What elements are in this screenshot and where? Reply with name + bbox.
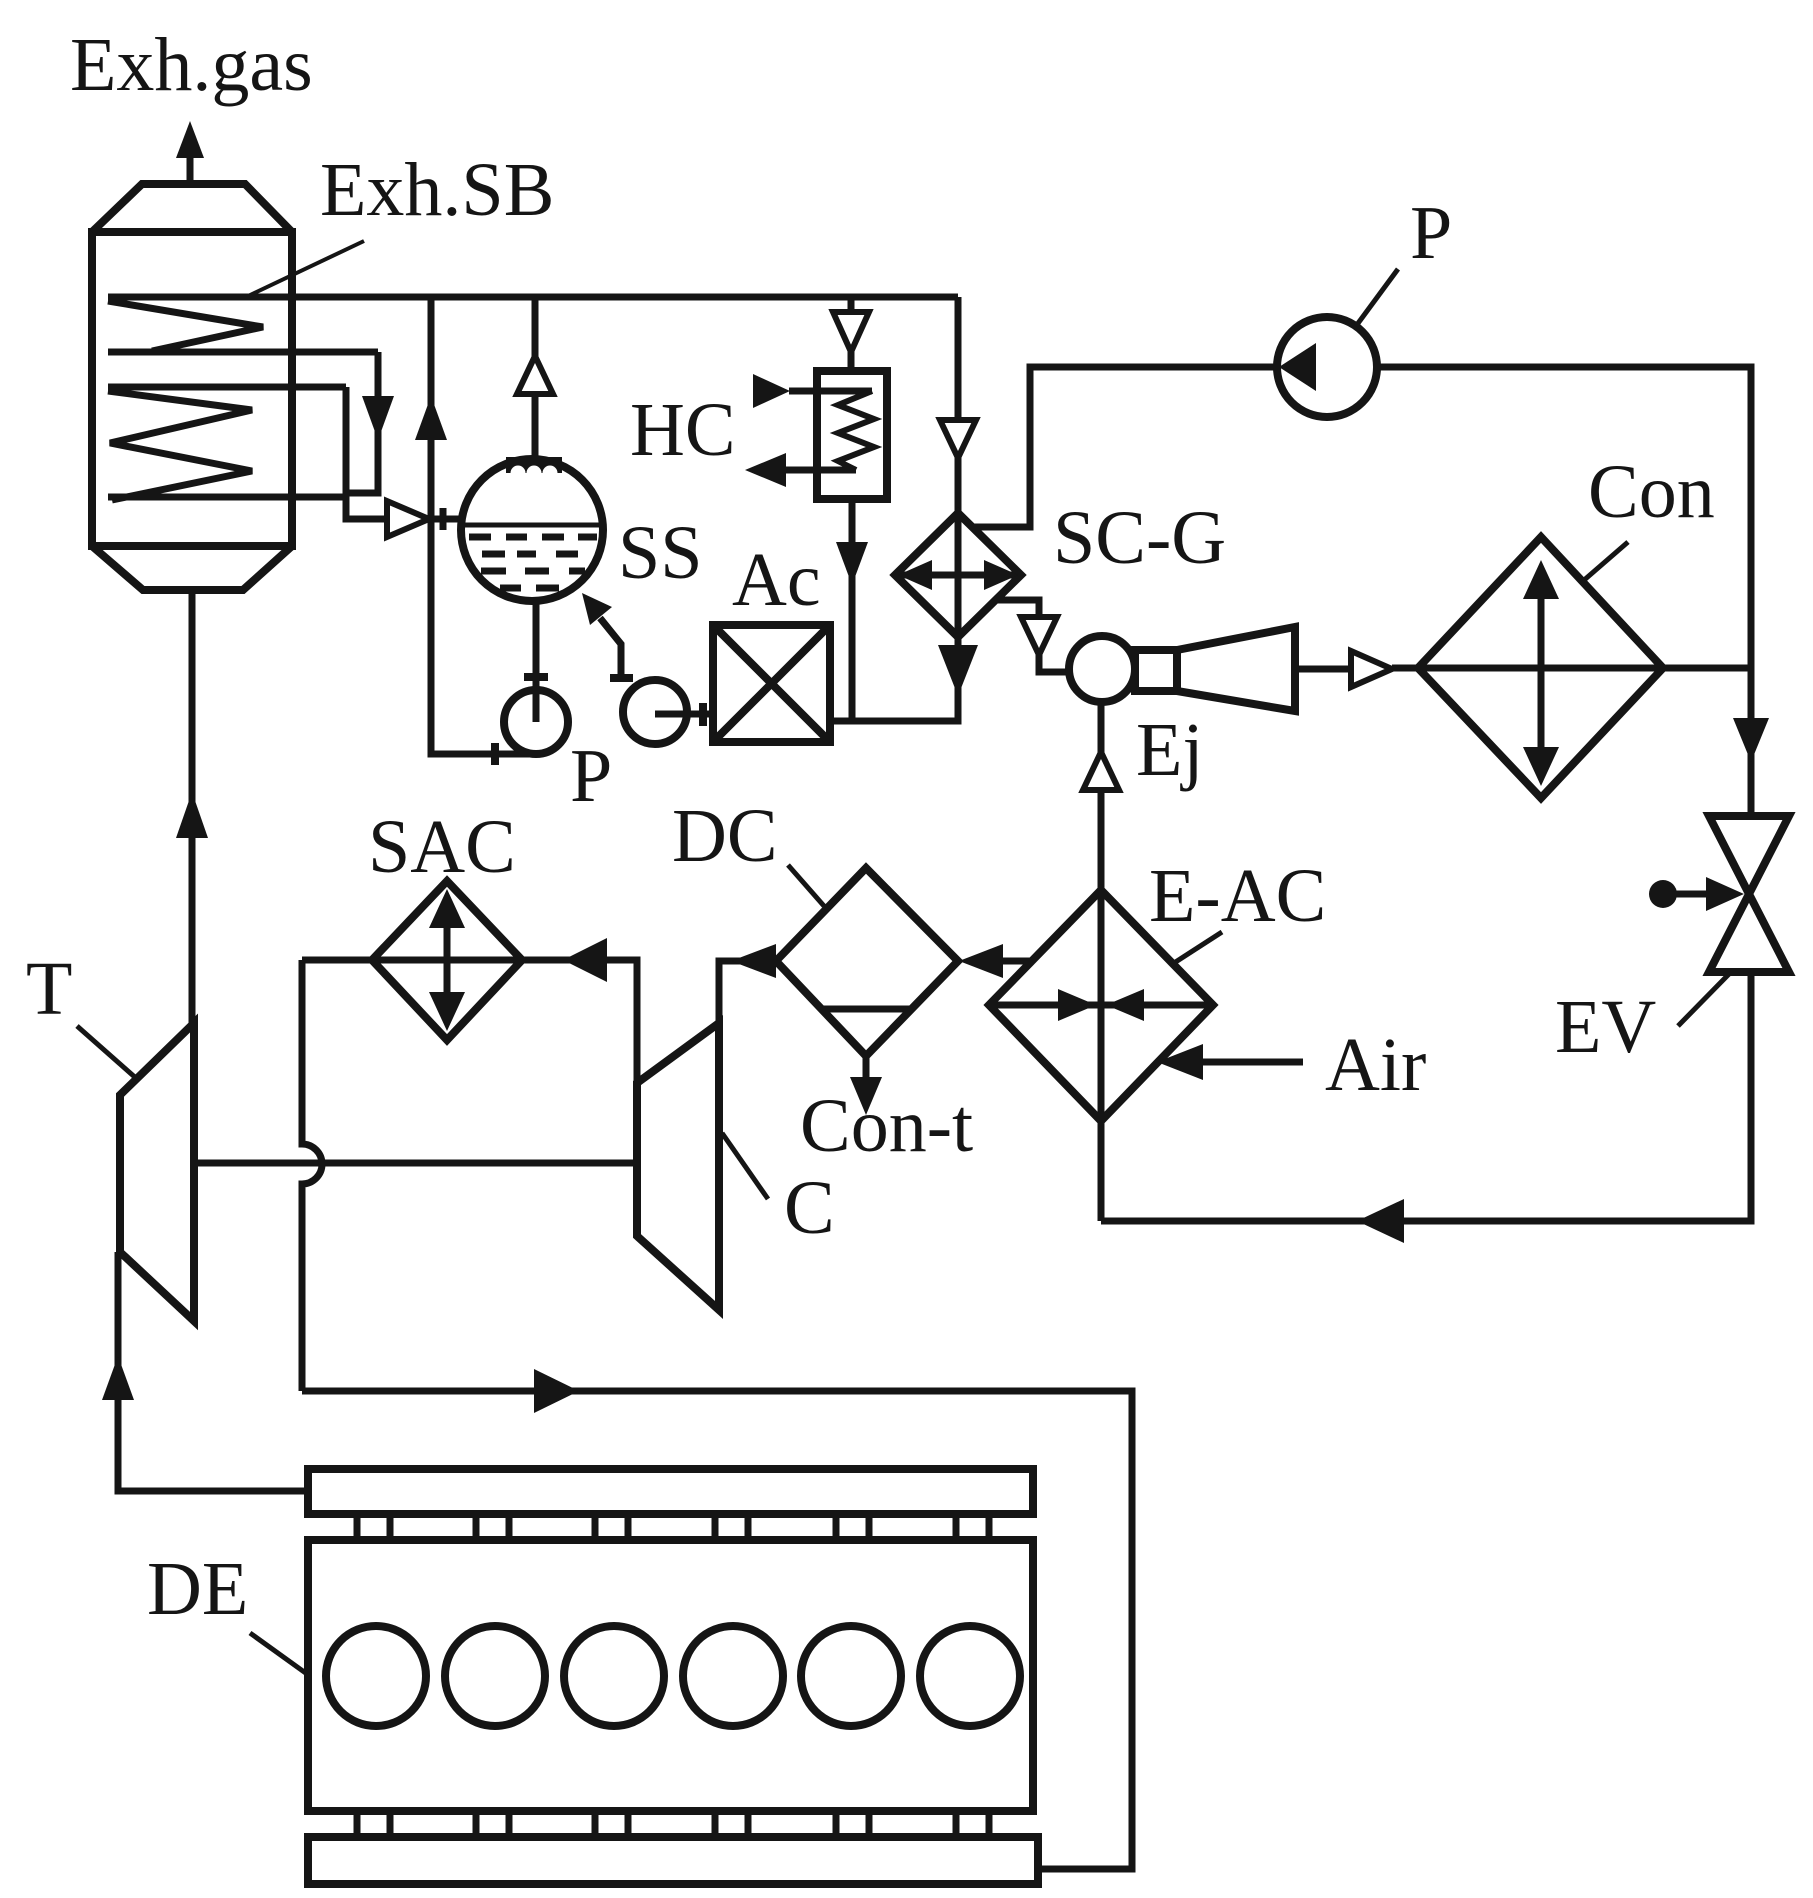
wire SS inlet stub [431, 516, 462, 523]
wire DC to compressor [719, 961, 776, 1023]
wire main steam line to SC-G [108, 294, 958, 301]
leader Exh.SB [246, 241, 364, 297]
wire turbine to boiler [189, 590, 196, 1023]
cylinder 3 [564, 1626, 664, 1726]
water dashes in SS [469, 537, 597, 588]
wire coil connector to SS x=346 [346, 387, 387, 519]
leader P top [1356, 269, 1398, 326]
shaft T to C [194, 1160, 637, 1167]
arrow open down into HC [833, 312, 869, 352]
wire SC-G lower tap to Ej [996, 600, 1069, 672]
arrow up to boiler [176, 792, 208, 838]
drain-cooler DC diamond [776, 868, 958, 1056]
engine DE bottom rail [308, 1837, 1038, 1884]
svg-text:Ac: Ac [732, 538, 821, 622]
wire pump P2 suction riser [600, 618, 621, 682]
wire feedwater riser x=431 [431, 297, 538, 754]
svg-text:SC-G: SC-G [1053, 496, 1226, 580]
wire steam line corner down to SC-G [955, 297, 962, 513]
wire E-AC to DC [1003, 958, 1031, 965]
svg-text:SAC: SAC [368, 805, 516, 889]
wire through Con [1418, 665, 1751, 672]
leader T [77, 1026, 137, 1079]
ejector diffuser cone [1177, 627, 1295, 711]
leader C [722, 1133, 768, 1199]
wire SC-G bottom to Ac [830, 637, 958, 721]
svg-text:HC: HC [630, 388, 736, 472]
svg-text:C: C [784, 1166, 835, 1250]
arrow Air into E-AC [1157, 1044, 1203, 1080]
arrow up to turbine [102, 1356, 134, 1400]
condenser Con diamond [1418, 537, 1663, 798]
svg-text:DE: DE [147, 1547, 248, 1631]
cylinder 6 [920, 1626, 1020, 1726]
arrow left into DC [959, 944, 1003, 978]
leader DE [250, 1633, 307, 1674]
resistor heating element in HC [838, 391, 874, 470]
evaporator E-AC diamond [989, 890, 1213, 1121]
pump P top circle [1277, 317, 1377, 417]
arrow left into SAC [563, 938, 607, 982]
wire to Con left vertex [1392, 665, 1418, 672]
wire DC condensate drain [863, 1056, 870, 1082]
demister crown in SS [506, 457, 562, 481]
arrow open right to Con [1351, 651, 1392, 687]
svg-text:T: T [26, 947, 72, 1031]
arrow open into SS [387, 501, 429, 537]
arrow right into EV [1706, 877, 1744, 911]
cooler SAC diamond [372, 881, 522, 1040]
pump P1 circle [504, 690, 568, 754]
arrow exhaust gas up [176, 121, 204, 158]
svg-text:DC: DC [672, 794, 778, 878]
tick pump1 suction [524, 673, 548, 681]
accumulator Ac box [713, 625, 830, 742]
svg-text:P: P [1410, 191, 1452, 275]
wire DE exhaust to turbine [118, 1252, 308, 1491]
wire charge air to DE [302, 1391, 1132, 1869]
heater HC box [817, 371, 887, 499]
ejector throat [1135, 650, 1177, 691]
water level line in SS [461, 523, 603, 528]
arrow pair in E-AC [989, 1002, 1213, 1009]
wire SS steam outlet up [532, 297, 539, 459]
arrow into SS from pump line [582, 593, 612, 625]
wire EV down and bottom loop to E-AC [1101, 972, 1751, 1221]
svg-text:P: P [570, 734, 612, 818]
engine DE head studs top [357, 1514, 989, 1540]
leader EV [1678, 974, 1729, 1026]
wire HC branch stub [848, 297, 855, 371]
cylinder 2 [445, 1626, 545, 1726]
wire SC-G vertical through [955, 513, 962, 637]
arrow left on bottom loop [1357, 1199, 1404, 1243]
arrow down on HC drain [836, 542, 868, 585]
arrow down condensate [850, 1077, 882, 1115]
tick pump2 discharge [699, 703, 707, 726]
wire compressor to SAC line [302, 960, 637, 1083]
svg-text:SS: SS [618, 511, 703, 595]
leader Con [1583, 542, 1628, 581]
arrow HC inlet right [753, 374, 790, 408]
wire Ej suction from E-AC [1098, 702, 1105, 890]
valve EV bowtie [1709, 816, 1789, 972]
pump P2 circle [623, 680, 687, 744]
wire HC outlet [786, 467, 856, 474]
wire SAC down pipe with hop [302, 960, 322, 1391]
arrow down to EV [1733, 718, 1769, 762]
arrow open down to SC-G [940, 420, 976, 458]
compressor C trapezoid [637, 1023, 719, 1310]
tick SS inlet [440, 508, 447, 530]
arrow down big below SC-G [938, 645, 978, 696]
wire Ej outlet [1295, 666, 1351, 673]
separator SS circle [461, 459, 603, 601]
coil upper superheater [108, 301, 263, 351]
wire pump P2 to Ac [655, 711, 713, 718]
svg-text:Con: Con [1588, 450, 1715, 534]
arrow double vertical in Con [1538, 575, 1545, 770]
arrow double horizontal in SC-G [898, 572, 1018, 579]
engine DE block [308, 1540, 1033, 1811]
wire coil downcomer x=378 [346, 352, 378, 493]
arrow down on coil downcomer [362, 396, 394, 440]
wire HC inlet [789, 388, 872, 395]
tick pump2 suction [610, 674, 633, 682]
engine DE head studs bottom [357, 1811, 989, 1837]
wire HC drain down [849, 499, 856, 721]
svg-text:Exh.gas: Exh.gas [70, 23, 313, 107]
leader E-AC [1174, 932, 1222, 963]
svg-text:Air: Air [1325, 1023, 1426, 1107]
cylinder 5 [801, 1626, 901, 1726]
wire exhaust stack pipe [187, 150, 194, 184]
boiler Exh.SB vessel body [92, 184, 292, 590]
svg-text:Ej: Ej [1136, 708, 1204, 792]
wire Air inlet [1203, 1059, 1303, 1066]
arrow pump internal [1279, 343, 1316, 391]
arrow left at DC outlet [731, 944, 776, 978]
heat-exchanger SC-G diamond [895, 513, 1021, 637]
wire actuator stem [1663, 891, 1706, 898]
coil lower evaporator [108, 391, 252, 500]
arrow right on charge air line [534, 1369, 579, 1413]
actuator dot of EV [1649, 880, 1677, 908]
wire pump to right loop [1377, 367, 1751, 816]
turbine T trapezoid [120, 1023, 194, 1321]
arrow open down to Ej [1021, 617, 1057, 655]
arrow open steam up [517, 356, 553, 394]
svg-text:E-AC: E-AC [1149, 854, 1326, 938]
arrow open up into Ej [1083, 752, 1119, 790]
cylinder 1 [326, 1626, 426, 1726]
cylinder 4 [683, 1626, 783, 1726]
engine DE top rail [308, 1469, 1033, 1514]
svg-text:Con-t: Con-t [800, 1084, 973, 1168]
svg-text:Exh.SB: Exh.SB [320, 148, 554, 232]
tick pump1 discharge [491, 743, 499, 765]
leader DC [788, 865, 824, 906]
wire SC-G upper tap to pump [972, 367, 1277, 527]
svg-text:EV: EV [1555, 985, 1656, 1069]
wire E-AC vertical through [1098, 890, 1105, 1221]
arrow up on feed riser [415, 396, 447, 440]
funnel chord in DC [822, 1006, 911, 1013]
wire SS to pump P1 [533, 601, 540, 722]
arrow HC outlet left [745, 453, 786, 487]
arrow double vertical in SAC [444, 905, 451, 1015]
ejector Ej circle [1069, 636, 1135, 702]
